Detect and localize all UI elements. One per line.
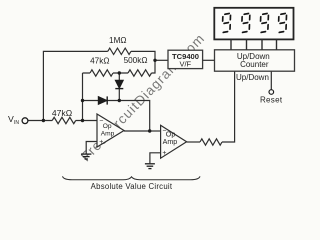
node: diode line left junction [81,99,84,102]
op-amp U2 labels [162,127,177,157]
svg-text:Op: Op [103,123,112,130]
resistor R5 output zigzag [200,139,222,145]
svg-text:+: + [162,150,166,157]
wire: 47k/500k feedback line [83,72,129,74]
ground (op2) [145,164,155,169]
box Up/Down Counter [215,50,295,71]
op-amp U1 [97,114,124,147]
digit 9 (1) [222,13,230,32]
wire: up/down line to counter [222,71,235,142]
node: op1 out/op2 in junction [148,129,151,132]
ground (op1) [81,154,91,159]
svg-text:+: + [99,139,103,146]
terminal Vin [22,118,28,124]
terminal Reset [269,90,274,95]
svg-text:Amp: Amp [163,138,178,146]
diode D1 (horizontal) [98,96,107,104]
box TC9400 V/F [168,50,203,68]
wire: op1 plus input to ground [86,142,97,154]
wire: op2 minus input [150,130,161,132]
wire: op2 output to resistor [187,141,200,143]
digit 9 (4) [278,13,286,32]
wire: TC9400 to counter [203,59,215,61]
svg-text:Up/Down: Up/Down [236,73,269,82]
digit 9 (2) [242,13,250,32]
svg-text:V/F: V/F [179,59,191,68]
wire: Vin line [28,120,97,122]
node: D2/diode line junction [118,99,121,102]
op-amp U2 [161,125,187,158]
display box (7-segment) [214,8,293,40]
resistor R2 1M zigzag [108,48,131,54]
svg-text:47kΩ: 47kΩ [90,56,109,65]
wire: feedback vertical to 500k corner [152,60,156,73]
node: 47k/vertical junction [81,119,84,122]
wire: left vertical x=82.5 [82,73,84,121]
digit 9 (3) [260,13,268,32]
svg-text:Counter: Counter [240,60,269,69]
svg-text:Amp: Amp [101,131,115,138]
svg-text:Reset: Reset [260,96,283,105]
op-amp U1 labels [99,118,114,146]
resistor R4 500k zigzag [128,70,152,76]
diode D2 (vertical) [115,80,123,88]
brace (absolute value circuit) [63,176,201,179]
node: 47k/500k/D2 junction [118,71,121,74]
svg-text:500kΩ: 500kΩ [124,56,148,65]
svg-text:IN: IN [14,120,19,126]
resistor R1 47k input zigzag [52,117,75,123]
resistor R3 47k feedback zigzag [90,70,113,76]
wire: diode line y=100.5 [83,101,150,132]
display connector stubs [231,39,277,49]
svg-text:47kΩ: 47kΩ [52,108,73,118]
wire: op2 plus input to ground [150,153,161,163]
wire: op1 output to junction [124,130,150,132]
wire: diode D2 branch vertical [118,73,120,101]
wire: TC9400 input [155,59,168,61]
svg-text:Absolute Value Circuit: Absolute Value Circuit [91,182,173,191]
wire: reset stub [270,71,272,89]
svg-text:1MΩ: 1MΩ [109,36,127,45]
node: Vin/1M junction [42,119,45,122]
node: feedback/TC9400 junction [153,59,156,62]
wire: 1M feedback loop left leg and top line [43,51,155,120]
